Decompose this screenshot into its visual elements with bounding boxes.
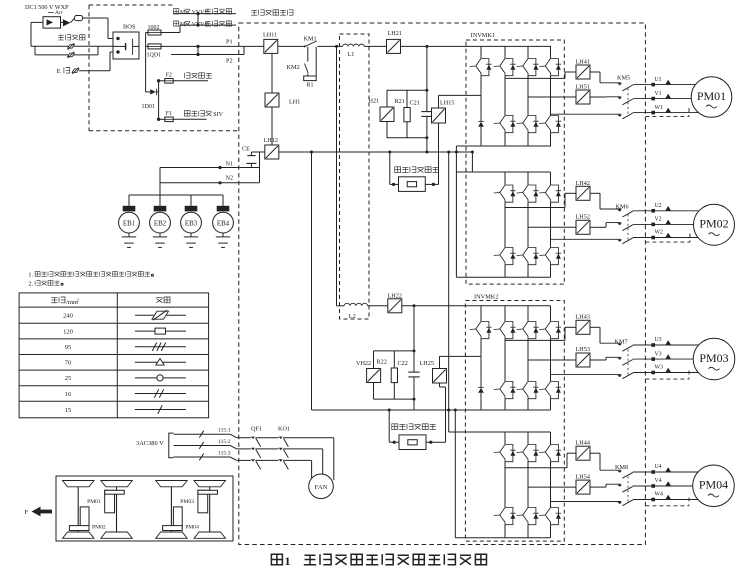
svg-text:VVVF: VVVF bbox=[192, 22, 209, 28]
svg-text:CE: CE bbox=[242, 146, 250, 153]
isolator switch 1 bbox=[68, 45, 75, 49]
svg-text:U2: U2 bbox=[655, 203, 662, 209]
svg-text:W3: W3 bbox=[655, 365, 663, 371]
isolator switch 2 bbox=[68, 53, 75, 57]
battery plates bbox=[113, 45, 126, 47]
svg-text:KM1: KM1 bbox=[304, 36, 317, 43]
sensor LH1 on drop wire bbox=[271, 53, 273, 93]
svg-text:L2: L2 bbox=[349, 313, 356, 320]
battery BOS box bbox=[113, 32, 139, 59]
svg-text:1.: 1. bbox=[28, 271, 33, 278]
motor PM04 bbox=[693, 465, 735, 507]
svg-text:1002: 1002 bbox=[148, 25, 160, 31]
svg-text:LH54: LH54 bbox=[576, 473, 590, 480]
earth bus bbox=[129, 194, 223, 196]
svg-text:N1: N1 bbox=[226, 161, 234, 168]
current sensor LH54 bbox=[576, 480, 590, 494]
svg-text:INVMK1: INVMK1 bbox=[471, 32, 496, 39]
svg-text:115:2: 115:2 bbox=[218, 439, 231, 445]
motor box PM04 on axle 1 bbox=[173, 507, 182, 529]
fan motor FAN bbox=[309, 474, 334, 499]
wire contact to BOS top terminal bbox=[83, 17, 109, 19]
svg-text:N2: N2 bbox=[226, 175, 234, 182]
contact shoe symbol bbox=[75, 16, 83, 21]
current sensor LH25 bbox=[433, 369, 447, 384]
svg-text:95: 95 bbox=[65, 344, 72, 351]
svg-text:1D01: 1D01 bbox=[142, 104, 155, 110]
svg-text:BOS: BOS bbox=[123, 24, 136, 31]
current sensor LH43 bbox=[576, 320, 590, 334]
svg-text:U4: U4 bbox=[655, 464, 662, 470]
RC network rails top section bbox=[387, 89, 427, 91]
junction box PM02 dashed bbox=[645, 241, 690, 243]
bridge2 phase tap U bbox=[505, 207, 565, 209]
label qu M che VVVF traction system 2 bbox=[173, 21, 178, 26]
capacitor C22 bbox=[413, 306, 415, 372]
dashed box reactor L1 L2 bbox=[340, 34, 370, 319]
svg-text:LH12: LH12 bbox=[264, 137, 278, 144]
ground symbol EB1 bbox=[128, 233, 130, 237]
wire bus LH21 to bridge 1 top bbox=[401, 45, 552, 47]
svg-text:PM03: PM03 bbox=[180, 499, 194, 505]
svg-text:LH42: LH42 bbox=[576, 180, 590, 187]
svg-text:W1: W1 bbox=[655, 105, 663, 111]
label to this unit SIV (qu ben dan yuan SIV) bbox=[184, 111, 190, 116]
negative bus N bbox=[251, 151, 264, 153]
svg-text:240: 240 bbox=[63, 313, 73, 320]
earth brush EB4 bbox=[222, 195, 224, 206]
arrow to line bbox=[63, 19, 70, 26]
wire to M-car VVVF system 1 bbox=[173, 13, 236, 15]
wire P2 bbox=[171, 54, 244, 56]
IGBT bridge 4 for PM04 bbox=[449, 431, 551, 433]
breaker QF1 pole 2 bbox=[251, 448, 255, 450]
AC phase line 115:2 bbox=[174, 445, 231, 447]
bogie with motors PM03 PM04 bbox=[156, 481, 188, 487]
wire KO1 to FAN phase 2 bbox=[322, 449, 324, 474]
bridge2 phase tap V bbox=[528, 226, 576, 228]
svg-text:1QD1: 1QD1 bbox=[147, 53, 162, 59]
earth brush EB2 bbox=[159, 195, 161, 206]
svg-text:KM2: KM2 bbox=[287, 64, 300, 71]
pantograph symbol box bbox=[43, 17, 61, 28]
svg-text:R22: R22 bbox=[377, 359, 387, 366]
svg-text:2: 2 bbox=[77, 297, 79, 302]
wire LH22 to bridge3 top bus bbox=[402, 305, 551, 307]
svg-text:W2: W2 bbox=[655, 230, 663, 236]
svg-text:M: M bbox=[180, 10, 185, 16]
IGBT bridge 3 for PM03 bbox=[480, 306, 482, 322]
IGBT bridge 2 for PM02 bbox=[456, 171, 550, 173]
wire LH25 to overvoltage resistor 2 bbox=[439, 383, 441, 387]
BOS terminal dots bbox=[116, 37, 119, 40]
wire L2 to LH22 bbox=[368, 305, 388, 307]
svg-text:LH21: LH21 bbox=[388, 30, 402, 37]
svg-text:F1: F1 bbox=[166, 111, 172, 117]
contactor KO1 pole 2 bbox=[279, 448, 283, 450]
svg-text:LH53: LH53 bbox=[576, 346, 590, 353]
resistor R22 bbox=[393, 351, 395, 368]
wire to M-car VVVF system 2 bbox=[180, 24, 236, 26]
label auxiliary bus (fu zhu mu xian) bbox=[184, 73, 190, 78]
wire P1 bus bbox=[161, 45, 264, 47]
overvoltage absorbing resistor 1 (guo ya xi shou dian zu) bbox=[395, 167, 401, 173]
wire pantograph down to depot line bbox=[30, 22, 32, 46]
dashed box input circuit bbox=[89, 4, 174, 6]
fuse F2 auxiliary bus bbox=[157, 79, 160, 82]
svg-text:1: 1 bbox=[285, 554, 291, 568]
svg-text:115:3: 115:3 bbox=[218, 450, 231, 456]
bridge3 phase tap V bbox=[528, 359, 576, 361]
bridge4 phase tap U bbox=[505, 467, 567, 469]
svg-text:PM03: PM03 bbox=[699, 351, 728, 365]
svg-text:F2: F2 bbox=[166, 72, 172, 78]
svg-text:KO1: KO1 bbox=[278, 426, 290, 433]
svg-text:V3: V3 bbox=[655, 351, 662, 357]
svg-text:R1: R1 bbox=[307, 83, 314, 89]
current sensor LH22 bbox=[388, 299, 402, 313]
svg-text:LH44: LH44 bbox=[576, 440, 590, 447]
earth brush switch bbox=[72, 69, 79, 73]
wire L1 to LH21 bbox=[364, 45, 386, 47]
bridge1 phase tap U bbox=[505, 77, 565, 79]
svg-text:KM5: KM5 bbox=[617, 75, 630, 82]
motor box PM02 on axle 1 bbox=[80, 507, 89, 529]
label qu M che VVVF traction system 1 bbox=[173, 9, 178, 14]
svg-text:EB3: EB3 bbox=[185, 220, 198, 227]
inductor L1 bbox=[343, 44, 365, 46]
svg-text:LH51: LH51 bbox=[576, 83, 590, 90]
fuse F1 to unit SIV bbox=[157, 118, 160, 121]
current sensor LH42 bbox=[576, 186, 590, 200]
current sensor LH41 bbox=[576, 65, 590, 79]
svg-text:P2: P2 bbox=[226, 58, 233, 65]
current sensor LH12 bbox=[265, 145, 279, 159]
wire 1002 to M-car line bbox=[161, 32, 180, 34]
svg-text:LH22: LH22 bbox=[388, 292, 402, 299]
svg-text:LH52: LH52 bbox=[576, 214, 590, 221]
contactor KO1 pole 3 bbox=[279, 459, 283, 461]
current sensor LH21 bbox=[387, 39, 401, 53]
wire N2 bbox=[160, 182, 260, 184]
table header bbox=[51, 298, 58, 303]
dashed box traction inverter (qian yin ni bian qi xiang) bbox=[239, 23, 646, 545]
contactor KO1 pole 1 bbox=[279, 437, 283, 439]
svg-text:SIV: SIV bbox=[213, 112, 223, 118]
motor box PM01 on axle 2 bbox=[105, 490, 115, 513]
ground symbol EB2 bbox=[159, 233, 161, 237]
current sensor LH44 bbox=[576, 446, 590, 460]
wire chopper to bridge1 leg1 bbox=[438, 95, 440, 108]
svg-text:EB2: EB2 bbox=[154, 220, 167, 227]
wire bus LH11 to KM1 bbox=[278, 45, 304, 47]
wire fuse column bbox=[145, 33, 147, 92]
svg-text:3AC380 V: 3AC380 V bbox=[136, 440, 164, 447]
wire chopper to bridge3 leg1 bbox=[439, 356, 441, 368]
svg-text:R21: R21 bbox=[395, 98, 405, 105]
wire negative bus lower bbox=[312, 409, 551, 411]
wire feeder bus2 to bridge4 bottom bbox=[454, 410, 456, 538]
svg-text:U3: U3 bbox=[655, 337, 662, 343]
current sensor LH51 bbox=[576, 90, 590, 104]
junction box PM04 dashed bbox=[645, 505, 689, 507]
depot socket wire 2 bbox=[34, 46, 36, 55]
svg-text:LH25: LH25 bbox=[420, 360, 434, 367]
svg-text:V1: V1 bbox=[655, 91, 662, 97]
motor box PM03 on axle 2 bbox=[198, 490, 208, 513]
current sensor LH53 bbox=[576, 353, 590, 367]
svg-text:V4: V4 bbox=[655, 478, 662, 484]
wire KO1 to FAN phase 3 bbox=[311, 460, 313, 478]
svg-text:115:1: 115:1 bbox=[218, 428, 231, 434]
svg-text:P1: P1 bbox=[226, 39, 233, 46]
junction box PM03 dashed bbox=[645, 378, 689, 380]
svg-text:16: 16 bbox=[65, 391, 72, 398]
svg-text:120: 120 bbox=[63, 328, 73, 335]
wire bus tap down to L2 bbox=[336, 46, 338, 305]
bracket bbox=[169, 433, 174, 458]
svg-text:LH43: LH43 bbox=[576, 314, 590, 321]
wire feeder bus1 to bridge2 top bbox=[471, 152, 473, 172]
wire bus KM1 to L1 bbox=[318, 45, 343, 47]
svg-text:V2: V2 bbox=[655, 217, 662, 223]
wire N1 to earth bus bbox=[159, 168, 161, 196]
svg-text:INVMK2: INVMK2 bbox=[474, 294, 499, 301]
depot socket wire 1 bbox=[31, 45, 113, 47]
dashed box inverter module INVMK2 bbox=[465, 301, 564, 542]
contactor KM1 bbox=[304, 45, 307, 47]
AC phase line 115:1 bbox=[174, 433, 231, 435]
current sensor LH52 bbox=[576, 220, 590, 234]
svg-text:LH15: LH15 bbox=[440, 100, 454, 107]
svg-text:H21: H21 bbox=[369, 98, 380, 105]
earth brush EB3 bbox=[190, 195, 192, 206]
dashed box inverter module INVMK1 bbox=[466, 40, 564, 284]
svg-text:LH11: LH11 bbox=[263, 32, 277, 39]
svg-text:Arr: Arr bbox=[55, 10, 63, 16]
wire N1 bbox=[160, 167, 260, 169]
resistor R21 bbox=[406, 90, 408, 107]
bridge4 phase tap V bbox=[528, 486, 576, 488]
varistor VH22 bbox=[373, 351, 375, 369]
svg-text:PM02: PM02 bbox=[92, 525, 106, 531]
label traction inverter box bbox=[251, 10, 257, 15]
ground symbol EB3 bbox=[190, 233, 192, 237]
svg-text:EB4: EB4 bbox=[217, 220, 230, 227]
svg-text:FAN: FAN bbox=[315, 484, 328, 491]
junction box PM01 dashed bbox=[645, 116, 689, 118]
IGBT bridge 1 for PM01 bbox=[456, 145, 551, 147]
svg-text:2.: 2. bbox=[28, 280, 33, 287]
wire F2-F1 column bbox=[158, 81, 160, 120]
svg-text:U1: U1 bbox=[655, 77, 662, 83]
wire gauge legend table bbox=[19, 293, 209, 418]
ground symbol EB4 bbox=[222, 233, 224, 237]
svg-text:C21: C21 bbox=[410, 100, 420, 107]
AC phase line 115:3 bbox=[174, 456, 231, 458]
label depot socket (ku yong cha zuo) bbox=[58, 35, 64, 40]
bogie layout box bbox=[56, 476, 233, 541]
breaker QF1 pole 3 bbox=[251, 459, 255, 461]
svg-text:PM04: PM04 bbox=[699, 478, 728, 492]
svg-text:E: E bbox=[57, 68, 61, 75]
figure caption: Fig1 PMSM traction system control circuit bbox=[271, 554, 282, 565]
fuse 1QD1 bbox=[148, 44, 161, 49]
current sensor LH15 bbox=[432, 108, 446, 123]
svg-text:L1: L1 bbox=[348, 51, 355, 58]
svg-text:M: M bbox=[180, 22, 185, 28]
motor PM03 bbox=[693, 338, 735, 380]
bogie with motors PM01 PM02 bbox=[63, 481, 95, 487]
precharge branch KM2 R1 bbox=[307, 47, 309, 62]
fuse 1002 bbox=[148, 30, 161, 35]
svg-text:QF1: QF1 bbox=[251, 426, 262, 433]
wire N drop bbox=[259, 152, 261, 183]
wire earth brush to BOS bottom terminal bbox=[79, 70, 110, 72]
svg-text:PM01: PM01 bbox=[87, 499, 101, 505]
varistor H21 bbox=[386, 90, 388, 107]
wire feeder bus1 to bridge4 top bbox=[448, 152, 450, 432]
RC network rails lower section bbox=[374, 350, 415, 352]
svg-text:PM01: PM01 bbox=[697, 89, 726, 103]
svg-text:LH1: LH1 bbox=[289, 98, 300, 105]
svg-text:PM02: PM02 bbox=[699, 217, 728, 231]
wire pantograph to contact bbox=[61, 21, 64, 23]
capacitor C21 bbox=[426, 46, 428, 111]
svg-text:EB1: EB1 bbox=[123, 220, 136, 227]
resistor R1 bbox=[304, 76, 317, 81]
svg-text:70: 70 bbox=[65, 360, 72, 367]
earth brush EB1 bbox=[128, 195, 130, 206]
wire feeder bus1 to bridge2 bottom bbox=[455, 146, 457, 277]
wire LH15 to overvoltage resistor bbox=[438, 123, 440, 184]
current sensor LH11 bbox=[264, 39, 278, 53]
inductor L2 bbox=[344, 303, 368, 305]
bridge1 phase tap V bbox=[528, 96, 576, 98]
svg-text:25: 25 bbox=[65, 375, 72, 382]
svg-text:15: 15 bbox=[65, 407, 72, 414]
svg-text:F: F bbox=[25, 509, 29, 516]
diode 1D01 bbox=[146, 91, 151, 93]
motor PM01 bbox=[691, 77, 732, 118]
wire KO1 to FAN phase 1 bbox=[333, 438, 335, 481]
bridge3 phase tap U bbox=[505, 339, 565, 341]
svg-text:W4: W4 bbox=[655, 492, 663, 498]
svg-text:PM04: PM04 bbox=[185, 525, 199, 531]
svg-text:C22: C22 bbox=[398, 360, 408, 367]
motor PM02 bbox=[694, 204, 735, 245]
breaker QF1 pole 1 bbox=[251, 437, 255, 439]
overvoltage absorbing resistor 2 (guo ya xi shou dian zu) bbox=[392, 424, 398, 430]
svg-text:LH41: LH41 bbox=[576, 59, 590, 66]
svg-text:VVVF: VVVF bbox=[192, 10, 209, 16]
svg-text:VH22: VH22 bbox=[356, 360, 371, 367]
wire negative bus drop from upper bbox=[311, 152, 313, 410]
